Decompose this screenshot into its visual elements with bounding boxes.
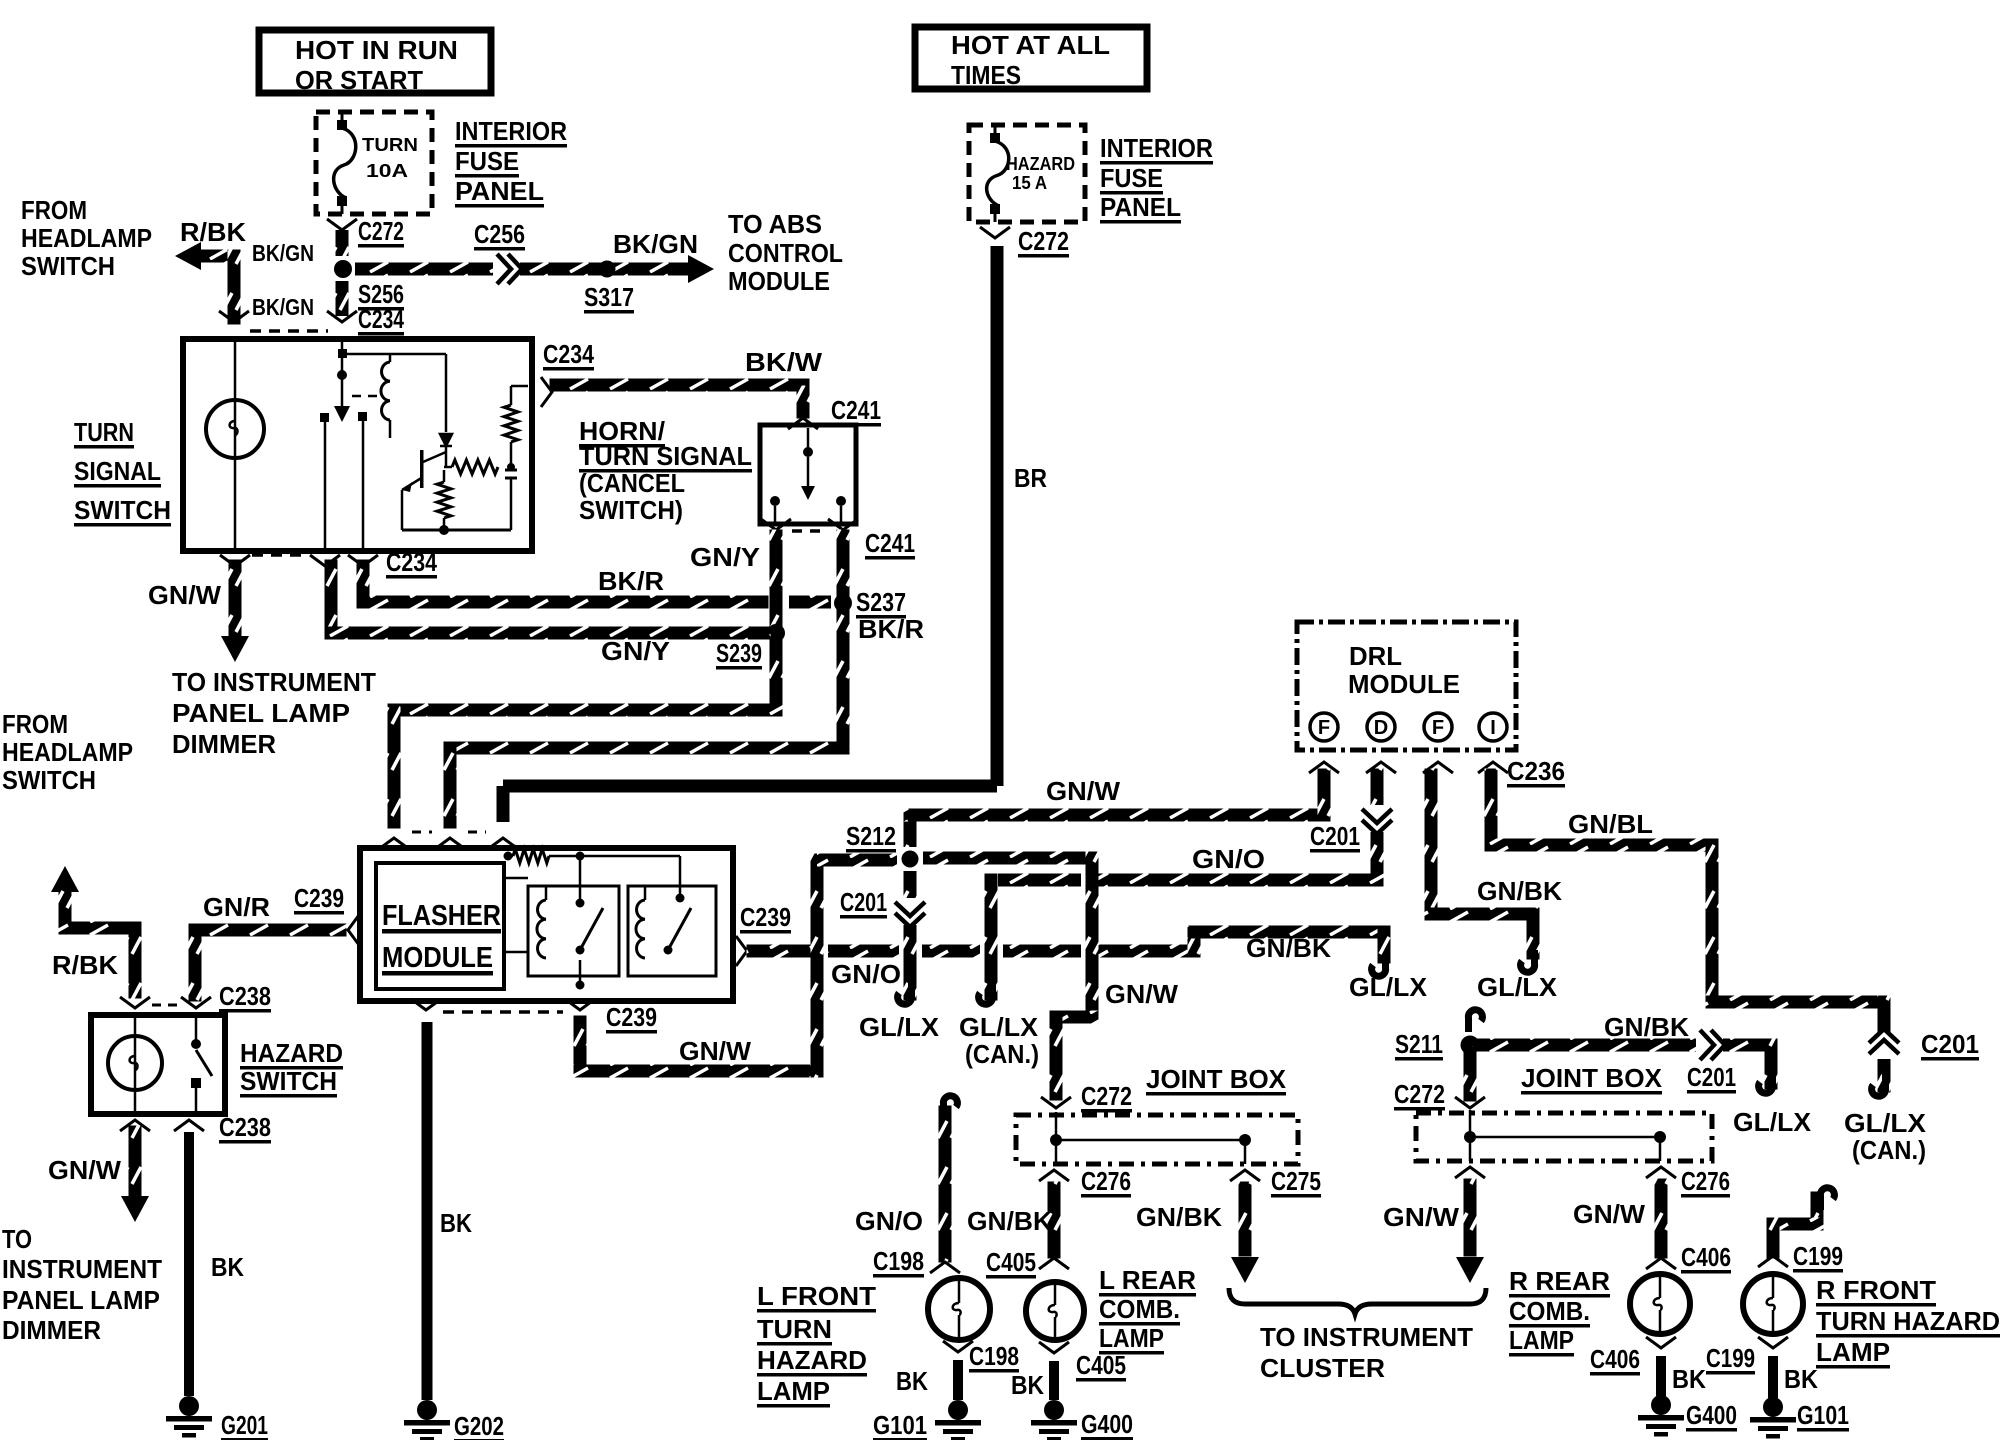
label GL/LX (CAN.) (far right) xyxy=(1844,1108,1927,1165)
label R/BK xyxy=(180,217,246,247)
connector C236 (DRL) xyxy=(1309,762,1508,773)
label GN/Y (lower-left) xyxy=(601,636,670,666)
wire GN/W flasher-bottom to S212 xyxy=(574,854,898,1078)
connector C275 (joint box 2) xyxy=(1455,1167,1485,1178)
label BK/R (left) xyxy=(598,566,664,596)
svg-text:R/BK: R/BK xyxy=(180,217,246,247)
svg-text:PANEL: PANEL xyxy=(1100,192,1181,222)
label GN/BK (S211) xyxy=(1604,1012,1689,1042)
svg-text:G202: G202 xyxy=(454,1411,504,1440)
connector C256 chevron xyxy=(493,254,522,284)
connector C234 (switch right) xyxy=(541,377,552,407)
label C405 (bottom) xyxy=(1076,1350,1126,1382)
fuse panel dashed boundary xyxy=(250,329,328,333)
svg-text:(CANCEL: (CANCEL xyxy=(579,468,685,498)
svg-text:CONTROL: CONTROL xyxy=(728,238,843,268)
ground G202 xyxy=(404,1400,450,1440)
label C272 (joint box 1) xyxy=(1081,1081,1132,1113)
joint box 2 interior xyxy=(1464,1110,1666,1161)
label C239 (flasher right) xyxy=(740,902,791,934)
svg-text:C275: C275 xyxy=(1271,1166,1321,1196)
pigtail GL/LX (S211 wire) xyxy=(1759,1071,1773,1093)
svg-text:BK: BK xyxy=(211,1252,244,1282)
svg-text:G201: G201 xyxy=(221,1410,268,1440)
label C201 (pin D) xyxy=(1310,821,1360,853)
svg-text:GN/O: GN/O xyxy=(855,1206,923,1236)
svg-text:BR: BR xyxy=(1014,463,1047,493)
label C239 (flasher top-left) xyxy=(294,883,344,915)
label R/BK (hazard) xyxy=(52,950,118,980)
svg-text:INSTRUMENT: INSTRUMENT xyxy=(2,1254,162,1284)
node S317 junction dot xyxy=(599,261,616,278)
label BK/GN (lower) xyxy=(252,294,314,320)
svg-text:TURN: TURN xyxy=(757,1314,832,1344)
hazard switch lamp circle xyxy=(108,1018,162,1111)
svg-text:C199: C199 xyxy=(1706,1343,1755,1373)
wire GN/Y cancel-switch to flasher xyxy=(388,530,783,829)
connector C276 (joint box 2) xyxy=(1646,1167,1676,1178)
label C272 xyxy=(358,216,404,248)
svg-text:FLASHER: FLASHER xyxy=(382,900,501,932)
label C256 xyxy=(474,219,525,251)
label TURN SIGNAL SWITCH xyxy=(74,417,171,527)
wire GN/BK joint box 1 to L rear lamp xyxy=(1048,1182,1061,1259)
label BK (L rear) xyxy=(1011,1370,1044,1400)
node S212 junction dot xyxy=(902,851,919,868)
label BK (R rear) xyxy=(1672,1364,1706,1394)
label GL/LX (S211 wire) xyxy=(1733,1107,1812,1137)
wire BK/R switch to S237 xyxy=(357,560,832,609)
label S239 xyxy=(716,638,762,670)
label C201 (far right) xyxy=(1921,1029,1979,1061)
arrow to ABS control module xyxy=(688,255,714,283)
ground G400 (right) xyxy=(1638,1395,1684,1437)
lamp L REAR COMB xyxy=(1026,1282,1084,1340)
lamp R REAR COMB xyxy=(1630,1274,1690,1334)
node S211 junction dot xyxy=(1461,1036,1480,1055)
wire BK flasher to G202 xyxy=(422,1022,433,1400)
fuse HAZARD 15A xyxy=(987,125,1075,222)
svg-text:GN/O: GN/O xyxy=(1192,844,1265,874)
connector C239 flasher bottom xyxy=(411,999,595,1012)
label S211 xyxy=(1395,1029,1443,1061)
svg-text:GN/Y: GN/Y xyxy=(601,636,670,666)
label BK/GN (right) xyxy=(613,229,698,259)
svg-text:C234: C234 xyxy=(386,547,437,577)
label GN/O (L front) xyxy=(855,1206,923,1236)
svg-text:BK: BK xyxy=(1784,1364,1818,1394)
connector C198 (bottom) xyxy=(943,1341,973,1352)
brace to instrument cluster xyxy=(1229,1288,1486,1314)
svg-text:I: I xyxy=(1490,717,1496,739)
label G201 xyxy=(221,1410,268,1440)
connector C406 (top) xyxy=(1646,1258,1676,1269)
label TO INSTRUMENT PANEL LAMP DIMMER (lower) xyxy=(2,1224,162,1345)
wire BK hazard switch to G201 xyxy=(184,1132,194,1396)
cancel switch interior xyxy=(770,428,846,522)
label BK (hazard) xyxy=(211,1252,244,1282)
hazard switch contact xyxy=(191,1018,212,1111)
svg-text:C238: C238 xyxy=(219,981,271,1011)
label C241 (bottom) xyxy=(865,528,915,560)
svg-text:C238: C238 xyxy=(219,1112,271,1142)
svg-text:S317: S317 xyxy=(584,282,634,312)
title box HOT AT ALL TIMES xyxy=(915,27,1147,90)
wire GN/Y switch to S239 xyxy=(325,560,771,640)
label C199 (top) xyxy=(1793,1241,1843,1273)
pigtail GL/LX (center) xyxy=(1372,954,1386,976)
label GL/LX (CAN.) (pin D branch) xyxy=(959,1012,1039,1069)
wire BK/GN junction to C234 xyxy=(336,281,349,316)
svg-text:R REAR: R REAR xyxy=(1509,1266,1610,1296)
svg-text:TURN: TURN xyxy=(74,417,134,447)
joint box 1 interior xyxy=(1050,1112,1251,1164)
svg-text:TO INSTRUMENT: TO INSTRUMENT xyxy=(172,667,376,697)
svg-text:TIMES: TIMES xyxy=(951,60,1021,90)
label L FRONT TURN HAZARD LAMP xyxy=(757,1281,876,1408)
wire GN/BK S211 to right xyxy=(1472,1039,1778,1090)
label C276 (joint box 1) xyxy=(1081,1166,1131,1198)
wire BK R rear to G400 xyxy=(1656,1356,1666,1396)
wire BK/GN fuse to junction xyxy=(336,230,349,256)
title box HOT IN RUN OR START xyxy=(259,30,491,95)
wire BK/GN junction to ABS (hatched) xyxy=(355,263,697,276)
label GN/W (hazard) xyxy=(48,1155,121,1185)
DRL pin F2 xyxy=(1424,713,1452,741)
svg-text:HOT AT ALL: HOT AT ALL xyxy=(951,30,1110,60)
label GL/LX (center) xyxy=(1349,972,1428,1002)
label C406 (top) xyxy=(1681,1242,1731,1274)
label INTERIOR FUSE PANEL (left) xyxy=(455,116,567,208)
flasher relay 2 xyxy=(628,886,716,976)
svg-text:DRL: DRL xyxy=(1349,641,1402,671)
wire S211 down to joint box 2 xyxy=(1464,1047,1477,1102)
svg-text:10A: 10A xyxy=(366,161,408,181)
label S317 xyxy=(584,282,634,314)
svg-text:GL/LX: GL/LX xyxy=(1733,1107,1812,1137)
connector C272 (fuse to wire) xyxy=(327,219,357,230)
connector C198 (top) xyxy=(930,1262,960,1273)
node S256 junction dot xyxy=(334,260,352,278)
svg-text:TURN: TURN xyxy=(362,135,418,155)
svg-text:S239: S239 xyxy=(716,638,762,668)
svg-text:G101: G101 xyxy=(873,1410,927,1440)
label GL/LX (pin F2) xyxy=(1477,972,1558,1002)
ground G400 (left) xyxy=(1031,1400,1077,1440)
svg-text:GN/O: GN/O xyxy=(831,959,901,989)
svg-text:LAMP: LAMP xyxy=(1816,1337,1890,1367)
label S256 xyxy=(358,279,404,311)
svg-text:GN/BK: GN/BK xyxy=(1136,1202,1222,1232)
svg-text:C272: C272 xyxy=(1394,1079,1445,1109)
svg-text:C239: C239 xyxy=(294,883,344,913)
svg-text:GN/R: GN/R xyxy=(203,892,270,922)
svg-text:BK/GN: BK/GN xyxy=(252,294,314,320)
wire GN/W S212 up to DRL pin F xyxy=(904,769,1331,848)
label C238 (bottom) xyxy=(219,1112,271,1144)
svg-text:GN/BK: GN/BK xyxy=(1246,933,1331,963)
label C239 (flasher bottom) xyxy=(606,1002,657,1034)
wire BR xyxy=(497,246,1004,822)
wire to R front lamp xyxy=(1767,1192,1824,1259)
label BK (flasher) xyxy=(440,1208,472,1238)
svg-text:C201: C201 xyxy=(840,887,887,917)
svg-text:S237: S237 xyxy=(856,587,906,617)
joint box 2 dashed box xyxy=(1416,1113,1712,1161)
connector C201 chevron (S212 branch) xyxy=(895,898,925,927)
fuse TURN 10A xyxy=(334,112,418,214)
svg-text:C234: C234 xyxy=(358,304,404,334)
horn/turn signal cancel switch box xyxy=(760,425,856,524)
wire GN/O to L front lamp xyxy=(939,1106,952,1263)
label GN/W (top) xyxy=(1046,776,1120,806)
pigtail GL/LX CAN (pin D branch) xyxy=(979,982,993,1004)
svg-text:TURN SIGNAL: TURN SIGNAL xyxy=(579,441,752,471)
label GN/BK (cluster) xyxy=(1136,1202,1222,1232)
svg-text:BK: BK xyxy=(896,1366,928,1396)
svg-text:BK/GN: BK/GN xyxy=(252,240,314,266)
svg-text:G400: G400 xyxy=(1686,1400,1737,1430)
label G400 (right) xyxy=(1686,1400,1737,1432)
pigtail GL/LX (S212 branch) xyxy=(898,982,912,1004)
label GN/Y (upper) xyxy=(690,542,760,572)
svg-text:S212: S212 xyxy=(846,821,896,851)
wire R/BK to headlamp switch xyxy=(175,242,241,325)
svg-text:G400: G400 xyxy=(1081,1409,1133,1439)
wire BK/R cancel-switch to flasher xyxy=(444,530,850,829)
connector C405 (top) xyxy=(1039,1258,1069,1269)
turn signal switch box xyxy=(183,339,532,551)
label C236 xyxy=(1507,756,1565,788)
connector C238 bottom xyxy=(120,1120,204,1131)
label BR xyxy=(1014,463,1047,493)
wire GN/R hazard to flasher xyxy=(189,924,347,1002)
flasher module name box xyxy=(376,863,504,989)
label GN/BL xyxy=(1568,809,1653,839)
wire GN/BL DRL pin I to far right xyxy=(1485,769,1891,1093)
label GN/W (left) xyxy=(148,580,221,610)
DRL module dashed box xyxy=(1297,622,1516,750)
label C272 (hazard fuse) xyxy=(1018,226,1069,258)
svg-text:GL/LX: GL/LX xyxy=(1349,972,1428,1002)
turn signal switch actuator line xyxy=(334,342,380,422)
DRL pin I xyxy=(1479,713,1507,741)
label C201 (S211 wire) xyxy=(1687,1062,1736,1094)
connector C239 flasher top xyxy=(379,832,518,849)
connector C234 (bottom of fuse panel) xyxy=(327,311,357,322)
label L REAR COMB. LAMP xyxy=(1099,1265,1196,1355)
label GN/BK (center) xyxy=(1246,933,1331,963)
svg-text:CLUSTER: CLUSTER xyxy=(1260,1353,1385,1383)
label G400 (left) xyxy=(1081,1409,1133,1440)
svg-text:MODULE: MODULE xyxy=(382,942,493,974)
svg-text:BK/W: BK/W xyxy=(745,347,822,377)
svg-text:INTERIOR: INTERIOR xyxy=(1100,133,1213,163)
svg-text:C234: C234 xyxy=(543,339,594,369)
label R REAR COMB. LAMP xyxy=(1509,1266,1610,1357)
label GN/O (small left) xyxy=(831,959,901,989)
label G202 xyxy=(454,1411,504,1440)
svg-text:L REAR: L REAR xyxy=(1099,1265,1196,1295)
svg-text:COMB.: COMB. xyxy=(1509,1296,1590,1326)
label FROM HEADLAMP SWITCH (mid left) xyxy=(2,709,133,795)
label GN/W (R rear) xyxy=(1573,1199,1645,1229)
connector C406 (bottom) xyxy=(1646,1337,1676,1348)
connector C405 (bottom) xyxy=(1039,1342,1069,1353)
svg-text:HAZARD: HAZARD xyxy=(240,1038,343,1068)
svg-text:GL/LX: GL/LX xyxy=(959,1012,1039,1042)
label FROM HEADLAMP SWITCH (top left) xyxy=(21,195,152,281)
svg-text:INTERIOR: INTERIOR xyxy=(455,116,567,146)
label C234 (right of switch) xyxy=(543,339,594,371)
pigtail GL/LX CAN (far right) xyxy=(1872,1074,1886,1096)
wire BK L front to G101 xyxy=(953,1360,963,1400)
label GL/LX (S212 branch) xyxy=(859,1012,940,1042)
svg-text:BK/R: BK/R xyxy=(598,566,664,596)
connector C241 top xyxy=(788,418,818,429)
label C276 (joint box 2) xyxy=(1681,1166,1730,1198)
svg-text:C406: C406 xyxy=(1681,1242,1731,1272)
label TO INSTRUMENT CLUSTER xyxy=(1260,1322,1473,1383)
connector C272 (joint box 1) xyxy=(1041,1097,1071,1108)
svg-text:GN/W: GN/W xyxy=(1105,979,1178,1009)
svg-text:LAMP: LAMP xyxy=(757,1376,830,1406)
label HAZARD SWITCH xyxy=(240,1038,343,1098)
connector C272 (hazard fuse) xyxy=(980,227,1010,238)
label BK (L front) xyxy=(896,1366,928,1396)
svg-text:GL/LX: GL/LX xyxy=(1477,972,1558,1002)
pigtail GL/LX (pin F2) xyxy=(1521,950,1535,972)
svg-text:LAMP: LAMP xyxy=(1099,1323,1164,1353)
svg-text:GN/W: GN/W xyxy=(148,580,221,610)
svg-text:C199: C199 xyxy=(1793,1241,1843,1271)
wire GN/BK DRL pin F2 to pigtail xyxy=(1425,769,1540,960)
node S239 junction dot xyxy=(767,624,785,642)
label GN/R xyxy=(203,892,270,922)
wire GN/W down-arrow (hazard) xyxy=(121,1126,149,1223)
flasher module outer box xyxy=(360,848,733,1001)
wire BK L rear to G400 xyxy=(1049,1361,1059,1400)
joint box 1 dashed box xyxy=(1016,1115,1298,1164)
connector C199 (bottom) xyxy=(1758,1337,1788,1348)
wire GN/BK to instrument cluster xyxy=(1231,1182,1259,1284)
svg-text:MODULE: MODULE xyxy=(728,266,830,296)
DRL pin D xyxy=(1367,713,1395,741)
label C234 (switch bottom) xyxy=(386,547,437,579)
svg-text:PANEL LAMP: PANEL LAMP xyxy=(2,1285,160,1315)
connector C239 flasher right xyxy=(736,936,747,966)
label S237 xyxy=(856,587,906,619)
svg-text:C276: C276 xyxy=(1081,1166,1131,1196)
connector C239 flasher left xyxy=(348,915,359,945)
connector C238 top xyxy=(120,997,211,1008)
svg-text:FUSE: FUSE xyxy=(455,146,519,176)
svg-text:GN/W: GN/W xyxy=(1383,1202,1459,1232)
svg-text:C276: C276 xyxy=(1681,1166,1730,1196)
pigtail GN/O (L front) xyxy=(943,1096,957,1118)
turn signal switch transistor circuit xyxy=(402,354,528,535)
label INTERIOR FUSE PANEL (right) xyxy=(1100,133,1213,224)
svg-text:SWITCH: SWITCH xyxy=(21,251,115,281)
fuse box HAZARD 15A (interior fuse panel) xyxy=(969,125,1085,222)
svg-text:R FRONT: R FRONT xyxy=(1816,1275,1936,1305)
svg-text:C201: C201 xyxy=(1921,1029,1979,1059)
svg-text:SWITCH: SWITCH xyxy=(74,495,171,525)
svg-text:GN/BK: GN/BK xyxy=(1604,1012,1689,1042)
label C234 xyxy=(358,304,404,336)
svg-text:G101: G101 xyxy=(1797,1400,1849,1430)
svg-text:TURN HAZARD: TURN HAZARD xyxy=(1816,1306,2000,1336)
svg-text:(CAN.): (CAN.) xyxy=(965,1039,1039,1069)
svg-text:HAZARD: HAZARD xyxy=(757,1345,867,1375)
svg-text:C406: C406 xyxy=(1590,1344,1640,1374)
svg-text:TO INSTRUMENT: TO INSTRUMENT xyxy=(1260,1322,1473,1352)
connector C201 chevron (S211 wire) xyxy=(1696,1030,1725,1060)
turn signal switch contacts xyxy=(320,412,367,548)
connector C234 switch-bottom xyxy=(220,555,378,566)
svg-text:C405: C405 xyxy=(1076,1350,1126,1380)
svg-text:GL/LX: GL/LX xyxy=(859,1012,940,1042)
svg-text:BK/GN: BK/GN xyxy=(613,229,698,259)
label C405 (top) xyxy=(986,1247,1036,1279)
svg-text:SWITCH: SWITCH xyxy=(240,1066,337,1096)
svg-text:S211: S211 xyxy=(1395,1029,1443,1059)
label BK/R (right) xyxy=(858,614,924,644)
label G101 (left) xyxy=(873,1410,927,1440)
svg-text:COMB.: COMB. xyxy=(1099,1294,1180,1324)
label GN/W (flasher bottom) xyxy=(679,1036,751,1066)
label C198 (bottom) xyxy=(969,1341,1019,1373)
svg-text:HAZARD: HAZARD xyxy=(1006,154,1075,174)
svg-text:BK: BK xyxy=(1011,1370,1044,1400)
wire GN/O DRL pin D to pigtail xyxy=(985,769,1384,1001)
wire BK/W xyxy=(550,379,810,419)
label TO INSTRUMENT PANEL LAMP DIMMER (upper) xyxy=(172,667,376,759)
turn signal switch coil xyxy=(342,354,446,438)
label HORN/ TURN SIGNAL (CANCEL SWITCH) xyxy=(579,416,752,525)
label BK/GN (upper) xyxy=(252,240,314,266)
wire BK R front to G101 xyxy=(1768,1356,1778,1398)
svg-text:(CAN.): (CAN.) xyxy=(1852,1135,1926,1165)
wire R/BK up-arrow to hazard switch xyxy=(51,866,142,999)
connector C275 (joint box 1) xyxy=(1230,1170,1260,1181)
connector C276 (joint box 1) xyxy=(1039,1170,1069,1181)
svg-text:GN/Y: GN/Y xyxy=(690,542,760,572)
svg-text:FUSE: FUSE xyxy=(1100,163,1163,193)
svg-text:SWITCH): SWITCH) xyxy=(579,495,683,525)
wire GN/W to instrument cluster xyxy=(1456,1179,1484,1284)
svg-text:GN/BL: GN/BL xyxy=(1568,809,1653,839)
svg-text:HOT IN RUN: HOT IN RUN xyxy=(295,35,458,65)
label JOINT BOX (right) xyxy=(1521,1063,1663,1095)
label C241 (top) xyxy=(831,395,881,427)
label G101 (right) xyxy=(1797,1400,1849,1432)
label GN/BK (pin F2) xyxy=(1477,876,1562,906)
label TO ABS CONTROL MODULE xyxy=(728,209,843,296)
svg-text:D: D xyxy=(1374,717,1388,739)
ground G101 (left) xyxy=(935,1400,981,1440)
pigtail S211 top xyxy=(1468,1010,1482,1032)
wire long GN/W S212 to joint box 1 xyxy=(923,852,1099,1101)
label C201 (S212 branch) xyxy=(840,887,887,919)
svg-text:C239: C239 xyxy=(740,902,791,932)
svg-text:LAMP: LAMP xyxy=(1509,1325,1574,1355)
flasher interior resistor and lines xyxy=(504,849,685,990)
svg-text:PANEL LAMP: PANEL LAMP xyxy=(172,698,350,728)
svg-text:L FRONT: L FRONT xyxy=(757,1281,876,1311)
connector C241 bottom xyxy=(761,519,858,531)
svg-text:MODULE: MODULE xyxy=(1348,669,1460,699)
